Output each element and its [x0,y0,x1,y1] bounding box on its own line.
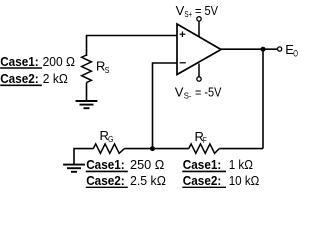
wire [74,149,93,164]
svg-text:O: O [293,48,298,58]
svg-text:Case2:: Case2: [86,173,125,188]
power terminal VS+ [197,17,201,37]
resistor RS [82,55,92,83]
label EO [285,42,298,58]
svg-text:S-: S- [184,91,192,101]
svg-text:250 Ω: 250 Ω [130,157,165,172]
wire [262,49,264,148]
svg-text:= 5V: = 5V [195,3,218,18]
label RG [100,128,114,144]
value label Case2 2 kohm [0,71,68,86]
svg-text:F: F [203,135,207,145]
label RS [96,59,110,75]
svg-text:10 kΩ: 10 kΩ [229,173,260,188]
wire [153,63,178,149]
op-amp minus input marker [180,62,186,64]
power terminal VS- [197,64,201,82]
svg-text:Case1:: Case1: [86,157,125,172]
svg-text:Case2:: Case2: [183,173,222,188]
svg-text:G: G [108,134,114,144]
label RF [195,129,207,145]
svg-text:Case2:: Case2: [0,71,39,86]
ground [76,101,98,108]
ground [63,165,85,172]
value label Case1 1 kohm [182,157,253,172]
node junction dot [261,47,266,52]
node junction dot [150,146,155,151]
resistor RF [189,144,220,153]
label VS- = -5V [175,84,222,100]
op-amp U1 [177,24,221,75]
resistor RG [93,144,124,153]
op-amp plus input marker [180,32,186,38]
svg-text:= -5V: = -5V [195,84,222,99]
svg-text:1 kΩ: 1 kΩ [229,157,254,172]
svg-text:Case1:: Case1: [183,157,222,172]
svg-text:V: V [176,3,185,18]
wire [87,36,178,57]
svg-text:S: S [105,65,110,75]
svg-text:V: V [175,84,184,99]
value label Case1 250 ohm [86,157,165,172]
value label Case2 2.5 kohm [86,173,166,188]
svg-text:2 kΩ: 2 kΩ [43,71,68,86]
svg-text:Case1:: Case1: [0,54,39,69]
wire [86,83,88,101]
wire [124,148,152,150]
value label Case2 10 kohm [182,173,259,188]
output terminal EO [278,47,282,51]
wire [219,148,263,150]
value label Case1 200 ohm [0,54,75,69]
wire [221,48,278,50]
svg-text:200 Ω: 200 Ω [43,54,76,69]
wire [153,148,189,150]
label VS+ = 5V [176,3,219,19]
svg-text:2.5 kΩ: 2.5 kΩ [130,173,166,188]
svg-text:S+: S+ [184,9,192,19]
